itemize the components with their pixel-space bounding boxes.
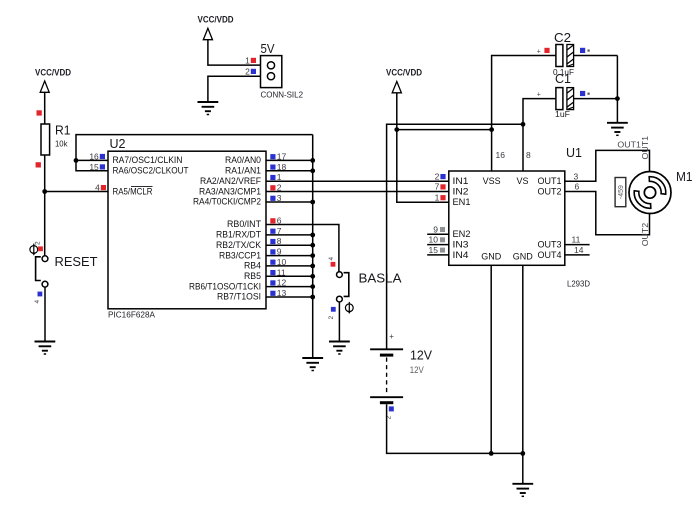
svg-text:RA0/AN0: RA0/AN0 bbox=[225, 155, 261, 165]
wire GND pin (right) down bbox=[522, 265, 524, 453]
svg-text:U1: U1 bbox=[566, 145, 582, 160]
svg-text:+: + bbox=[537, 92, 541, 99]
svg-text:14: 14 bbox=[574, 245, 584, 255]
svg-text:EN2: EN2 bbox=[453, 229, 471, 239]
svg-text:OUT2: OUT2 bbox=[641, 222, 650, 246]
svg-text:10k: 10k bbox=[55, 139, 68, 149]
svg-text:3: 3 bbox=[277, 193, 282, 203]
wire C1 right bbox=[574, 98, 618, 100]
ground (below capacitors) bbox=[607, 123, 628, 136]
svg-text:IN1: IN1 bbox=[453, 176, 469, 186]
pin number 7 U1 with marker (red) bbox=[435, 182, 446, 192]
svg-text:OUT4: OUT4 bbox=[538, 250, 562, 260]
wire MCLR to U2 pin 4 bbox=[45, 191, 108, 193]
svg-text:8: 8 bbox=[526, 150, 531, 160]
svg-text:10: 10 bbox=[277, 257, 287, 267]
svg-text:OUT1: OUT1 bbox=[641, 135, 650, 159]
pin number 6 U2 bbox=[270, 216, 282, 226]
ground (below BASLA) bbox=[329, 342, 350, 355]
junction VSS line bbox=[489, 127, 494, 132]
motor M1 bbox=[629, 172, 671, 214]
svg-text:VCC/VDD: VCC/VDD bbox=[35, 68, 71, 79]
svg-text:1uF: 1uF bbox=[555, 109, 570, 119]
svg-text:2: 2 bbox=[245, 66, 250, 76]
wire RB3 to bus bbox=[266, 255, 313, 257]
svg-text:PIC16F628A: PIC16F628A bbox=[108, 309, 155, 319]
svg-text:2: 2 bbox=[35, 241, 42, 245]
wire pin 15 bbox=[76, 160, 108, 170]
svg-text:12V: 12V bbox=[410, 348, 432, 363]
actuator symbol RESET bbox=[30, 244, 38, 256]
junction C1 right bbox=[615, 96, 620, 101]
svg-text:RA7/OSC1/CLKIN: RA7/OSC1/CLKIN bbox=[113, 155, 183, 165]
logic state marker (red) pin 4 bbox=[101, 185, 106, 190]
wire connector pin 2 to ground bbox=[208, 76, 261, 101]
svg-text:7: 7 bbox=[435, 182, 440, 192]
svg-text:OUT1: OUT1 bbox=[538, 176, 562, 186]
wire RESET to ground bbox=[44, 287, 46, 341]
ground (below bus) bbox=[302, 358, 323, 371]
logic state marker (red) R1 bottom bbox=[36, 162, 41, 167]
junction RA1/bus bbox=[310, 168, 315, 173]
pin number 8 U2 bbox=[270, 236, 282, 246]
logic state marker (blue) C2 right bbox=[580, 48, 585, 53]
svg-text:VCC/VDD: VCC/VDD bbox=[386, 68, 422, 79]
svg-text:CONN-SIL2: CONN-SIL2 bbox=[261, 90, 304, 100]
wire OUT1 to motor top bbox=[565, 150, 650, 181]
svg-text:7: 7 bbox=[277, 226, 282, 236]
wire battery negative to ground rail bbox=[387, 404, 523, 453]
logic state marker (red) connector pin 1 bbox=[251, 58, 256, 63]
pin number 1 U1 with marker (red) bbox=[435, 193, 446, 203]
logic state marker (blue) pin 16 bbox=[100, 154, 105, 159]
junction VCC / VSS branch bbox=[394, 127, 399, 132]
wire RB5 to bus bbox=[266, 275, 313, 277]
pin number 1 U2 bbox=[270, 172, 282, 182]
svg-text:C2: C2 bbox=[554, 30, 571, 45]
pin number 10 U1 with marker (grey) bbox=[429, 235, 445, 245]
svg-text:2: 2 bbox=[328, 316, 335, 320]
svg-text:RB0/INT: RB0/INT bbox=[227, 219, 261, 229]
junction at pin16/15 tie bbox=[74, 158, 79, 163]
logic state marker (red) RESET top bbox=[38, 246, 43, 251]
logic state marker (blue) RESET bottom bbox=[38, 292, 43, 297]
logic state marker (red) C2 left bbox=[544, 48, 549, 53]
svg-text:VS: VS bbox=[516, 176, 528, 186]
svg-text:OUT3: OUT3 bbox=[538, 240, 562, 250]
svg-text:VSS: VSS bbox=[483, 176, 501, 186]
capacitor C2 bbox=[556, 45, 574, 67]
pin number 12 U2 bbox=[270, 278, 286, 288]
polarity mark C2 right bbox=[588, 50, 590, 52]
pin number 2 U1 with marker (blue) bbox=[435, 171, 446, 181]
pin number 2 U2 bbox=[270, 183, 282, 193]
wire RB0 to BASLA button bbox=[266, 225, 339, 272]
svg-text:GND: GND bbox=[513, 252, 534, 262]
svg-text:OUT1: OUT1 bbox=[617, 141, 641, 150]
svg-text:1: 1 bbox=[245, 55, 250, 65]
power symbol VCC/VDD (middle, over L293D) bbox=[386, 68, 422, 93]
svg-text:GND: GND bbox=[481, 252, 502, 262]
wire RA3 to L293D IN2 bbox=[266, 191, 449, 193]
motor value box bbox=[615, 178, 626, 207]
junction VS line bbox=[521, 122, 526, 127]
pin number 13 U2 bbox=[270, 288, 286, 298]
power symbol VCC/VDD (top middle, connector) bbox=[198, 14, 234, 39]
wire RA4 to bus bbox=[266, 201, 313, 203]
wire RB2 to bus bbox=[266, 244, 313, 246]
logic state marker (red) R1 top bbox=[37, 110, 42, 115]
svg-text:5V: 5V bbox=[261, 41, 275, 56]
svg-text:VCC/VDD: VCC/VDD bbox=[198, 14, 234, 25]
svg-text:L293D: L293D bbox=[567, 279, 590, 289]
svg-text:C1: C1 bbox=[555, 71, 571, 86]
wire VCC branch to VSS (pin 16) bbox=[397, 129, 492, 131]
pin number 15 U1 with marker (grey) bbox=[429, 245, 445, 255]
svg-text:U2: U2 bbox=[110, 136, 126, 151]
connector J1 CONN-SIL2 bbox=[261, 56, 282, 88]
motor driver U1 L293D bbox=[449, 171, 565, 265]
wire RA2 to L293D IN1 bbox=[266, 180, 449, 182]
svg-text:6: 6 bbox=[277, 216, 282, 226]
wire BASLA to ground bbox=[338, 302, 340, 341]
svg-text:12: 12 bbox=[277, 278, 287, 288]
svg-text:11: 11 bbox=[277, 267, 286, 277]
svg-text:RA3/AN3/CMP1: RA3/AN3/CMP1 bbox=[199, 186, 261, 196]
svg-text:OUT2: OUT2 bbox=[538, 186, 562, 196]
svg-text:RB1/RX/DT: RB1/RX/DT bbox=[216, 230, 261, 240]
svg-text:-459: -459 bbox=[618, 185, 625, 199]
svg-text:EN1: EN1 bbox=[453, 197, 471, 207]
svg-text:17: 17 bbox=[277, 151, 287, 161]
polarity mark C1 right bbox=[588, 93, 590, 95]
svg-text:M1: M1 bbox=[676, 169, 693, 184]
pin number 11 U2 bbox=[270, 267, 286, 277]
svg-text:IN3: IN3 bbox=[453, 240, 469, 250]
push button RESET bbox=[36, 256, 48, 287]
stub wire IN4 bbox=[427, 254, 449, 256]
logic state marker (blue) BASLA bottom bbox=[331, 307, 336, 312]
stub wire OUT4 bbox=[565, 254, 590, 256]
pin number 9 U1 with marker (grey) bbox=[433, 224, 445, 234]
ground (bottom right) bbox=[512, 484, 533, 497]
svg-text:IN2: IN2 bbox=[453, 186, 469, 196]
wire ground rail down bbox=[522, 453, 524, 483]
junction ground rail / GND left bbox=[489, 451, 494, 456]
wire C2 right bbox=[574, 55, 618, 57]
svg-text:4: 4 bbox=[95, 183, 100, 193]
stub wire EN2 bbox=[427, 233, 449, 235]
power symbol VCC/VDD (top left) bbox=[35, 68, 71, 93]
svg-text:RA4/T0CKI/CMP2: RA4/T0CKI/CMP2 bbox=[193, 197, 261, 207]
svg-text:4: 4 bbox=[328, 257, 335, 261]
svg-text:9: 9 bbox=[433, 224, 438, 234]
pin number 9 U2 bbox=[270, 247, 282, 257]
logic state marker (blue) battery bottom bbox=[389, 406, 394, 411]
resistor R1 bbox=[41, 124, 50, 155]
logic state marker (blue) pin 15 bbox=[100, 164, 105, 169]
stub wire IN3 bbox=[427, 244, 449, 246]
svg-text:3: 3 bbox=[574, 171, 579, 181]
wire RA0 to bus bbox=[266, 159, 313, 161]
svg-text:RB5: RB5 bbox=[244, 271, 261, 281]
svg-text:1: 1 bbox=[277, 172, 282, 182]
wire GND pin (left) down bbox=[490, 265, 492, 453]
svg-text:RA1/AN1: RA1/AN1 bbox=[225, 166, 261, 176]
svg-text:RB4: RB4 bbox=[244, 261, 261, 271]
wire VCC down to EN1 bbox=[397, 93, 449, 203]
wire 12V branch to VS (pin 8) bbox=[387, 124, 523, 348]
logic state marker (blue) connector pin 2 bbox=[251, 69, 256, 74]
svg-text:15: 15 bbox=[429, 245, 439, 255]
ground (below connector) bbox=[198, 102, 219, 115]
logic state marker (red) BASLA top bbox=[331, 262, 336, 267]
svg-text:BASLA: BASLA bbox=[359, 270, 402, 285]
svg-text:10: 10 bbox=[429, 235, 439, 245]
wire RB1 to bus bbox=[266, 234, 313, 236]
svg-text:2: 2 bbox=[277, 183, 282, 193]
svg-text:RESET: RESET bbox=[55, 254, 98, 269]
svg-text:4: 4 bbox=[34, 300, 41, 304]
svg-text:RB2/TX/CK: RB2/TX/CK bbox=[216, 240, 261, 250]
wire OSC tie (pins 16,15 to grounded bus) bbox=[76, 135, 313, 161]
wire RB4 to bus bbox=[266, 265, 313, 267]
pin number 17 U2 bbox=[270, 151, 286, 161]
wire capacitors to ground bbox=[616, 56, 618, 123]
actuator symbol BASLA bbox=[345, 302, 353, 314]
wire VCC to connector pin 1 bbox=[208, 40, 261, 65]
wire ground bus (vertical) bbox=[312, 135, 314, 358]
stub wire OUT3 bbox=[565, 244, 590, 246]
pin number 10 U2 bbox=[270, 257, 286, 267]
svg-text:11: 11 bbox=[572, 235, 581, 245]
svg-text:RA5/MCLR: RA5/MCLR bbox=[113, 186, 153, 196]
svg-text:8: 8 bbox=[277, 236, 282, 246]
pin number 3 U2 bbox=[270, 193, 282, 203]
ground (below RESET) bbox=[35, 342, 56, 355]
svg-text:+: + bbox=[389, 332, 394, 341]
wire OUT2 to motor bottom bbox=[565, 192, 650, 235]
wire VCC to R1 top bbox=[44, 92, 46, 124]
wire R1 bottom to RESET button bbox=[44, 155, 46, 256]
svg-text:+: + bbox=[537, 49, 541, 56]
push button BASLA bbox=[337, 272, 349, 302]
junction RA4/bus bbox=[310, 200, 315, 205]
svg-text:1: 1 bbox=[435, 193, 440, 203]
wire C2 left to VSS line bbox=[492, 56, 556, 172]
microcontroller U2 PIC16F628A bbox=[108, 151, 266, 309]
battery BAT1 12V bbox=[370, 349, 403, 402]
pin number 7 U2 bbox=[270, 226, 282, 236]
svg-text:RB3/CCP1: RB3/CCP1 bbox=[219, 250, 261, 260]
svg-text:13: 13 bbox=[277, 288, 287, 298]
wire RA1 to bus bbox=[266, 170, 313, 172]
capacitor C1 bbox=[556, 88, 574, 110]
svg-text:RB7/T1OSI: RB7/T1OSI bbox=[217, 292, 261, 302]
wire RB6 to bus bbox=[266, 286, 313, 288]
svg-text:R1: R1 bbox=[55, 123, 71, 138]
svg-text:16: 16 bbox=[496, 150, 506, 160]
logic state marker (blue) C1 right bbox=[580, 91, 585, 96]
svg-text:IN4: IN4 bbox=[453, 250, 469, 260]
junction RA0/bus bbox=[310, 158, 315, 163]
wire RB7 to bus bbox=[266, 296, 313, 298]
svg-text:12V: 12V bbox=[410, 365, 424, 375]
wire C1 left to VS line bbox=[523, 99, 556, 171]
svg-text:RA6/OSC2/CLKOUT: RA6/OSC2/CLKOUT bbox=[113, 166, 189, 176]
svg-text:2: 2 bbox=[435, 171, 440, 181]
svg-text:RA2/AN2/VREF: RA2/AN2/VREF bbox=[200, 176, 261, 186]
svg-text:18: 18 bbox=[277, 162, 287, 172]
pin number 18 U2 bbox=[270, 162, 286, 172]
svg-text:9: 9 bbox=[277, 247, 282, 257]
junction node MCLR bbox=[42, 189, 47, 194]
svg-text:6: 6 bbox=[575, 182, 580, 192]
svg-text:RB6/T1OSO/T1CKI: RB6/T1OSO/T1CKI bbox=[189, 281, 261, 291]
junction ground rail / GND right bbox=[520, 451, 525, 456]
